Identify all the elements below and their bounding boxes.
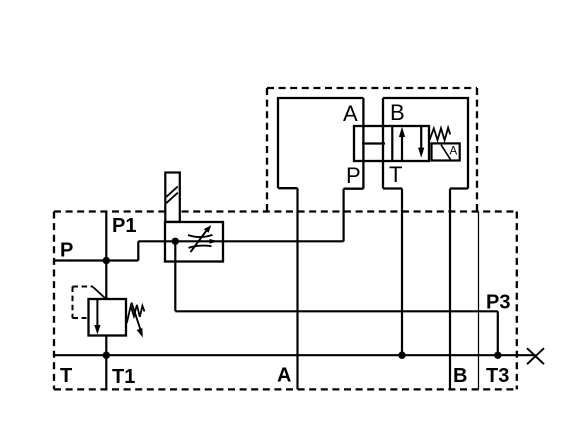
- node P junction: [103, 257, 110, 264]
- svg-text:P1: P1: [112, 215, 136, 237]
- svg-text:P: P: [346, 163, 361, 188]
- wire P jog up: [137, 241, 139, 260]
- thin partition line T3 compartment: [478, 212, 480, 390]
- valve V1 right position up arrow: [399, 127, 405, 161]
- manifold block left (ports A / P): [278, 98, 363, 189]
- relief valve RV1 spring adjust arrow: [132, 303, 143, 338]
- top module dashed enclosure: [267, 88, 477, 212]
- valve V1 return spring: [430, 128, 451, 141]
- relief valve RV1 body: [89, 299, 127, 336]
- flow control FC1 flow arrowhead: [210, 239, 218, 244]
- relief valve RV1 spring: [127, 305, 145, 323]
- valve V1 position divider: [391, 126, 393, 161]
- wire P port jog down: [343, 189, 345, 242]
- valve V1 right position down arrow: [418, 127, 424, 158]
- svg-text:A: A: [343, 101, 358, 126]
- svg-text:T3: T3: [486, 365, 509, 387]
- wire T port down: [401, 189, 403, 356]
- svg-text:A: A: [277, 365, 291, 387]
- svg-text:P: P: [60, 240, 73, 262]
- svg-text:T: T: [60, 365, 72, 387]
- wire P supply horizontal: [54, 259, 138, 261]
- flow control FC1 restrictor arcs: [188, 235, 213, 237]
- svg-text:T1: T1: [112, 366, 135, 388]
- relief valve RV1 pilot diagonal: [93, 287, 106, 299]
- valve V1 body: [354, 126, 429, 161]
- valve V1 solenoid A: [432, 143, 460, 160]
- plug X mark: [527, 348, 544, 364]
- wire FC1 out down: [174, 241, 176, 311]
- node T drain junction: [398, 352, 405, 359]
- bottom module dashed enclosure: [54, 212, 517, 390]
- wire T tank line: [54, 354, 536, 356]
- wire RV1 out down: [105, 336, 107, 390]
- relief valve RV1 internal arrow: [94, 299, 100, 335]
- wire P3 down: [497, 311, 499, 355]
- manifold block right (ports B / T): [383, 98, 468, 189]
- wire B port down: [449, 189, 451, 390]
- svg-text:B: B: [390, 100, 405, 125]
- valve V1 left position H link: [362, 142, 385, 144]
- flow control FC1 adjust arrow: [191, 225, 212, 252]
- wire P1 vertical: [105, 212, 107, 300]
- mechanical actuator hatched block: [165, 173, 180, 222]
- svg-text:P3: P3: [486, 292, 510, 314]
- node P3/T3 junction: [494, 352, 501, 359]
- svg-text:B: B: [453, 365, 467, 387]
- flow control valve FC1 body: [165, 222, 223, 262]
- relief valve RV1 pilot dashed line: [73, 287, 94, 319]
- node FC1 inlet junction: [172, 238, 179, 245]
- node T1 junction: [103, 352, 110, 359]
- wire A port down: [296, 188, 298, 389]
- svg-text:A: A: [450, 146, 458, 158]
- svg-text:T: T: [389, 162, 402, 187]
- wire P feed to valve P: [138, 240, 343, 242]
- wire FC1 out to P3: [175, 310, 498, 312]
